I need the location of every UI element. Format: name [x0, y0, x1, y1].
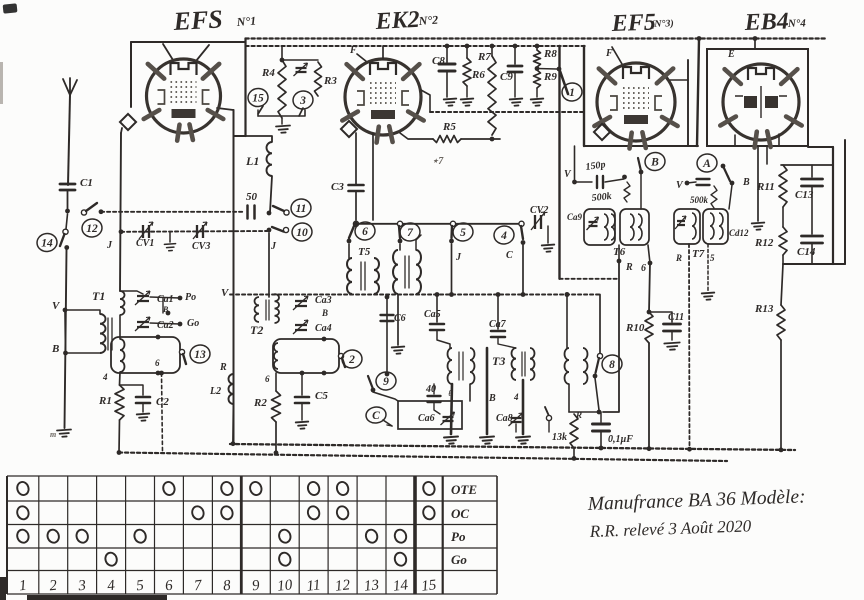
coil T6 cell1 b	[611, 214, 615, 240]
variable capacitor CV3	[193, 222, 207, 239]
T5 core bar2	[364, 262, 366, 290]
node V tube3	[572, 180, 577, 185]
svg-text:R: R	[219, 362, 227, 373]
T2 core bar b	[268, 300, 270, 320]
wire R8R9 node to switch 1	[537, 68, 557, 71]
wire tube2 anode line	[400, 133, 433, 139]
svg-text:11: 11	[306, 577, 321, 594]
coil T1 primary	[100, 314, 106, 353]
switch 8 contact	[597, 353, 602, 358]
svg-text:Manufrance BA 36 Modèle:: Manufrance BA 36 Modèle:	[586, 486, 805, 515]
coil T6 cell1 a	[604, 214, 608, 240]
switch B lever	[638, 158, 641, 171]
wire tube3 box bottom	[584, 145, 698, 147]
node Po	[178, 296, 183, 301]
wire CV2 ground stub	[547, 226, 549, 243]
node T6 R terminal	[617, 259, 622, 264]
table mark row3 col5	[133, 528, 148, 544]
wire T4 secondary ground drop	[397, 295, 399, 346]
wire bus drop to R4	[281, 46, 283, 60]
oscillator coil left a	[448, 348, 453, 384]
wire R4 bottom bracket	[257, 110, 259, 116]
switch label A	[696, 153, 718, 174]
node switch A pivot	[721, 164, 726, 169]
variable capacitor CV2	[531, 212, 545, 230]
trimmer in T7	[675, 216, 686, 229]
node switch A out	[730, 181, 735, 186]
detector coil a	[565, 348, 570, 384]
wire T3 right drop	[522, 380, 525, 434]
wire V-B column	[64, 310, 67, 353]
node chassis B at R2	[274, 450, 279, 455]
svg-text:Po: Po	[451, 529, 466, 544]
switch label 8	[601, 354, 623, 375]
wire tube1 box top	[131, 41, 246, 43]
switch 12 lever	[86, 203, 97, 211]
T5 core bars	[360, 262, 362, 290]
node T2 box corner a	[322, 337, 327, 342]
wire T3 left drop	[486, 348, 489, 434]
svg-text:4: 4	[102, 372, 108, 382]
svg-text:B: B	[321, 308, 328, 318]
node chassis B at R1	[117, 450, 122, 455]
svg-text:R9: R9	[543, 71, 557, 83]
svg-text:C5: C5	[315, 390, 328, 402]
capacitor 40pF	[428, 396, 441, 402]
switch C arrow	[383, 420, 392, 426]
node bus2 at R7	[490, 44, 495, 49]
table mark row3 col1	[16, 528, 31, 544]
svg-text:2: 2	[49, 578, 59, 595]
svg-text:12: 12	[86, 223, 98, 235]
svg-text:C13: C13	[795, 189, 814, 201]
svg-text:11: 11	[296, 203, 307, 215]
svg-text:E: E	[727, 49, 735, 60]
wire left column down to ground	[65, 250, 67, 428]
wire 01uF stub	[600, 412, 602, 422]
T4 core bars	[404, 256, 406, 288]
wire CV1 ground stub	[169, 232, 171, 242]
switch 11 lever	[273, 206, 284, 211]
trimmer Ca2	[135, 317, 150, 331]
resistor R6	[463, 58, 471, 86]
wire thick vertical x560	[558, 46, 560, 279]
ground below C8	[444, 99, 457, 106]
resistor 500k tube4	[711, 186, 717, 208]
node 150p out	[622, 175, 627, 180]
svg-text:C11: C11	[668, 312, 684, 323]
table mark row1 col9	[248, 480, 263, 496]
wire switch6 into T5	[348, 244, 350, 258]
wire tube1 anode stub	[163, 44, 173, 60]
capacitor C3	[349, 185, 364, 191]
resistor R5	[433, 136, 461, 143]
svg-text:R4: R4	[261, 67, 275, 79]
wire screen bus y112	[430, 111, 584, 113]
svg-text:4: 4	[500, 230, 507, 242]
node AVC at det coil	[565, 292, 570, 297]
svg-text:OTE: OTE	[451, 482, 477, 497]
wire chassis bus A	[230, 444, 795, 450]
svg-text:Cd12: Cd12	[729, 228, 749, 238]
IF transformer T6 cell2 box	[620, 209, 649, 245]
wire C8 stub	[446, 46, 448, 62]
T4 core bar2	[408, 256, 410, 288]
IF transformer T7 cell2 box	[703, 209, 728, 244]
coil T4 left	[393, 250, 398, 294]
wire L1 bottom to switch 11	[270, 176, 272, 212]
coil T7 cell1	[692, 213, 696, 239]
svg-text:14: 14	[392, 577, 409, 595]
switch 15 arrow	[258, 106, 263, 114]
wire R2 to bus	[275, 422, 277, 453]
T3 core b	[524, 352, 526, 376]
node R10 top	[647, 310, 652, 315]
coil in T2 box	[274, 343, 278, 369]
svg-text:15: 15	[421, 577, 438, 595]
scan artifact left-bottom bar	[0, 577, 6, 600]
capacitor C14	[802, 236, 823, 243]
T1 core bar b	[111, 318, 113, 350]
node switch 7	[398, 239, 403, 244]
wire AVC drop to switch 8	[599, 295, 601, 355]
node T2 box bottom	[300, 371, 305, 376]
svg-text:L1: L1	[245, 154, 259, 168]
svg-text:Go: Go	[187, 318, 199, 329]
table mark row3 col2	[46, 528, 61, 544]
svg-text:R2: R2	[253, 397, 267, 409]
svg-text:C: C	[372, 410, 380, 422]
wire R9 to ground	[536, 88, 538, 97]
svg-text:4: 4	[107, 578, 117, 595]
switch 10 lever	[272, 227, 284, 232]
resistor R7	[488, 56, 496, 135]
node below switch 14	[64, 245, 69, 250]
coil T6 cell2 b	[638, 214, 642, 240]
svg-text:J: J	[455, 252, 462, 263]
wire T7 bottom left down to chassis	[688, 244, 691, 450]
svg-text:N°1: N°1	[235, 14, 256, 29]
wire switch4 down	[522, 245, 524, 295]
wire T6 R terminal	[618, 245, 620, 261]
svg-text:EB4: EB4	[743, 8, 789, 36]
svg-text:14: 14	[41, 238, 53, 250]
node bus1 at divider	[697, 36, 702, 41]
capacitor 150p	[597, 176, 603, 188]
wire grid column through box	[119, 372, 122, 385]
switch label 12	[81, 218, 103, 239]
switch C arrowhead	[387, 425, 392, 426]
svg-text:Ca3: Ca3	[315, 295, 332, 306]
node det coil top	[565, 292, 570, 297]
svg-text:15: 15	[252, 93, 264, 105]
node chassis A at R13	[779, 448, 784, 453]
capacitor 50pF	[248, 206, 255, 219]
node R7 bottom	[490, 137, 495, 142]
small switch contact	[546, 415, 551, 420]
IF transformer T7 cell1 box	[674, 209, 700, 244]
node between R8 R9	[535, 66, 540, 71]
vacuum tube V2 EK2	[342, 59, 423, 143]
table mark row1 col15	[422, 480, 437, 496]
node AVC at switch5 drop	[449, 292, 454, 297]
wire R13 to bus A	[780, 340, 782, 450]
svg-text:R: R	[625, 262, 633, 273]
svg-text:2: 2	[348, 354, 355, 366]
svg-text:Po: Po	[185, 292, 196, 303]
node chassis A at L2	[231, 441, 236, 446]
wire switch 9 to C box	[373, 392, 398, 401]
wire R6 stub	[466, 46, 468, 58]
svg-text:C2: C2	[156, 396, 169, 408]
svg-text:V: V	[564, 169, 572, 180]
coil T2 secondary	[275, 294, 280, 323]
wire T6 6 terminal	[648, 245, 650, 263]
switch label 7	[399, 222, 421, 243]
svg-text:Ca5: Ca5	[424, 309, 441, 320]
wire 40 cap stub	[433, 384, 435, 394]
svg-text:6: 6	[155, 358, 160, 368]
wire switch5 down	[451, 244, 453, 295]
svg-text:C6: C6	[394, 313, 406, 324]
ground below R9	[531, 99, 544, 106]
switch 7 contact	[397, 221, 402, 226]
wire C13 stub top	[811, 165, 813, 177]
ground below CV2	[542, 245, 555, 252]
scan artifact top-left blob	[3, 3, 18, 13]
svg-text:R8: R8	[543, 48, 557, 60]
svg-text:1: 1	[569, 87, 575, 99]
switch label 3	[292, 90, 314, 111]
wire tube3 right lead	[670, 79, 688, 81]
wire C2 to ground	[142, 403, 144, 412]
wire y279 link	[560, 278, 620, 280]
resistor R2	[272, 391, 281, 422]
svg-text:L2: L2	[209, 386, 221, 397]
svg-text:EF5: EF5	[610, 9, 656, 37]
svg-text:R3: R3	[323, 75, 337, 87]
switch 13 lever	[183, 354, 186, 364]
svg-text:CV2: CV2	[530, 205, 548, 216]
svg-text:R7: R7	[477, 51, 491, 63]
svg-text:CV1: CV1	[136, 238, 154, 249]
T2 core bar a	[265, 300, 267, 320]
wire T6 R down to detector junction	[603, 261, 619, 412]
wire tube4 down stub	[766, 146, 768, 164]
wire T6 to R10	[649, 263, 650, 312]
vacuum tube V1 EF5	[144, 59, 224, 141]
wire small switch drop	[548, 421, 550, 432]
coil L1	[267, 142, 273, 176]
wire tube1 box bottom corner	[234, 135, 246, 137]
node box13 corner a	[156, 335, 161, 340]
node T2 box corner b	[322, 371, 327, 376]
oscillator coil left b	[470, 348, 475, 384]
node Ca7 top	[496, 292, 501, 297]
switch 7 lever	[399, 226, 400, 238]
switch label B	[644, 151, 666, 172]
node C6 bottom	[385, 372, 390, 377]
svg-text:6: 6	[641, 263, 646, 274]
node C6 top	[385, 295, 390, 300]
wire tube2 pin to switch 7 contact	[372, 134, 374, 220]
svg-text:F: F	[349, 45, 357, 56]
antenna fork third prong	[70, 80, 77, 95]
wire grid line with CV1 CV3	[121, 230, 267, 233]
wire C5 branch	[301, 373, 303, 395]
node chassis A at R10	[647, 446, 652, 451]
switch 14 contact	[63, 229, 68, 234]
wire F stub tube3	[612, 47, 622, 64]
capacitor C9	[508, 66, 522, 72]
wire C6 column	[386, 297, 388, 374]
wire R6 to ground	[466, 86, 468, 97]
switch 5 lever	[450, 226, 453, 238]
switch 1 lever	[560, 71, 568, 94]
svg-text:C3: C3	[331, 181, 344, 193]
svg-text:C1: C1	[80, 177, 93, 189]
switch 9 lever	[368, 376, 373, 389]
wire band switch line	[356, 223, 522, 225]
wire tube4 cathode down	[757, 146, 759, 221]
svg-text:B: B	[488, 393, 496, 404]
wire B to T1 primary	[66, 352, 101, 354]
svg-text:R5: R5	[442, 121, 456, 133]
node Ca5 top	[435, 292, 440, 297]
svg-text:5: 5	[460, 227, 466, 239]
T1 core bar a	[107, 318, 109, 350]
svg-text:3: 3	[77, 578, 87, 595]
svg-text:R: R	[675, 253, 682, 263]
svg-text:B: B	[162, 305, 169, 314]
wire osc coil right drop	[469, 384, 471, 401]
wire R4 to ground	[281, 118, 283, 124]
svg-text:Ca8: Ca8	[496, 413, 513, 424]
wire R12 to bottom tie	[782, 255, 784, 264]
coil T4 right	[416, 250, 421, 294]
switch 5 contact	[450, 221, 455, 226]
wire C3 down to switch 6	[355, 191, 357, 220]
node at C1 bottom	[65, 209, 70, 214]
wire outer right vertical	[844, 140, 846, 264]
T1 switch contact box	[111, 337, 180, 373]
resistor R13	[777, 305, 785, 340]
wire Ca5 to coil	[437, 330, 450, 348]
wire T4 right top up	[416, 235, 421, 250]
wire C5 to ground	[301, 403, 303, 420]
node chassis A at 01uF	[599, 446, 604, 451]
wire tube4 pin right	[778, 134, 780, 146]
ground T4 secondary	[392, 347, 405, 354]
ground below antenna column	[57, 430, 71, 438]
svg-text:R6: R6	[471, 69, 485, 81]
node bus2 at R6	[465, 44, 470, 49]
table mark row1 col12	[335, 480, 350, 496]
wire Ca2 to Go tap	[150, 323, 180, 324]
svg-text:R.R. relevé 3 Août 2020: R.R. relevé 3 Août 2020	[588, 516, 752, 541]
coil T5 right	[374, 258, 379, 294]
table mark row2 col12	[335, 505, 350, 521]
switch 2 contact	[338, 353, 343, 358]
table mark row1 col6	[162, 480, 177, 496]
switch 8 lever	[596, 358, 600, 373]
node switch 6	[347, 239, 352, 244]
coil T1 secondary lower	[120, 339, 125, 372]
svg-text:R11: R11	[756, 181, 775, 193]
svg-text:F: F	[605, 48, 613, 59]
switch 4 lever	[521, 226, 523, 239]
ground below T7	[702, 293, 715, 300]
node chassis B at 13k	[572, 456, 577, 461]
capacitor 500k coupling	[697, 179, 710, 185]
coil T1 secondary upper	[120, 291, 125, 315]
wire L1 top to box	[246, 136, 273, 142]
wire Ca7 to T3	[498, 337, 516, 348]
svg-text:R1: R1	[98, 395, 112, 407]
ground below C11	[664, 342, 680, 350]
switch label 6	[354, 221, 376, 242]
svg-text:T5: T5	[358, 246, 371, 258]
svg-text:EFS: EFS	[172, 4, 224, 36]
coil T5 left	[347, 258, 352, 294]
resistor 13k	[570, 414, 578, 448]
wire 150p to node	[605, 179, 624, 182]
wire R13 top tie	[781, 264, 783, 305]
svg-text:9: 9	[251, 578, 261, 595]
wire C11 to ground	[671, 331, 673, 340]
wire tube1 top-right stub	[196, 45, 209, 61]
svg-text:6: 6	[362, 226, 368, 238]
table mark row2 col11	[306, 505, 321, 521]
antenna symbol	[63, 78, 70, 95]
node bus2 at R8	[535, 44, 540, 49]
node switch B out	[639, 170, 644, 175]
table mark row2 col1	[16, 505, 31, 521]
wire long divider vertical	[697, 39, 699, 146]
switch label C	[365, 406, 387, 425]
capacitor C5	[295, 397, 309, 403]
svg-text:V: V	[676, 180, 684, 191]
switch label 15	[247, 87, 269, 108]
svg-text:0,1µF: 0,1µF	[608, 434, 633, 445]
wire right rail vertical	[832, 147, 834, 264]
wire osc coil left drop	[451, 384, 452, 434]
table mark row3 col3	[75, 528, 90, 544]
wire R3 branch	[282, 59, 318, 61]
svg-text:R13: R13	[754, 303, 774, 315]
resistor R10	[645, 312, 653, 343]
ground below R4	[276, 126, 290, 134]
node V tube4	[685, 181, 690, 186]
tube V4 box	[707, 49, 808, 146]
trimmer Ca8	[509, 413, 523, 426]
IF transformer T6 cell1 box	[584, 209, 615, 245]
wire chassis bus B	[119, 453, 727, 462]
resistor R1	[115, 385, 124, 420]
switch 6 contact	[353, 221, 358, 226]
wire tube2 anode top stub	[382, 46, 384, 59]
svg-text:7: 7	[193, 577, 204, 594]
wire Ca5 column	[436, 295, 438, 323]
node switch 9	[371, 388, 376, 393]
variable capacitor CV1	[139, 222, 153, 239]
wire det coil top tie	[566, 295, 568, 349]
wire L2 to bus	[232, 404, 235, 444]
wire tube3 cathode to V node	[574, 146, 576, 182]
svg-text:50: 50	[246, 191, 258, 203]
ground below C5	[296, 422, 309, 429]
resistor R12	[779, 227, 787, 255]
